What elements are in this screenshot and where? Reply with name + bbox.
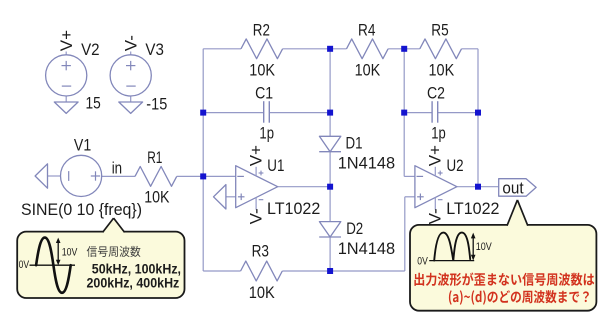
wire mid rail middle [329,152,331,222]
svg-text:V-: V- [426,208,445,224]
svg-text:V-: V- [246,208,265,224]
svg-text:LT1022: LT1022 [267,199,320,218]
wire left rail [202,49,204,271]
svg-text:V+: V+ [246,145,265,166]
wire V2 top stub [65,52,67,55]
svg-text:out: out [502,179,523,198]
wire C2 row right [438,112,478,114]
wire U2 output [457,186,478,188]
junction [200,173,206,179]
svg-text:V+: V+ [57,30,76,51]
svg-text:-15: -15 [146,94,167,113]
10V arrow [57,241,59,262]
wire mid rail lower [329,237,331,271]
svg-text:LT1022: LT1022 [446,199,499,218]
svg-text:V1: V1 [74,135,91,154]
ground under V2 [54,102,78,113]
svg-text:R4: R4 [358,21,375,40]
wire R1 to U1 minus [177,175,236,177]
svg-text:R1: R1 [147,148,162,167]
svg-text:0V: 0V [417,255,428,267]
wire C2 row left [404,112,432,114]
node out flag [499,179,536,197]
diode D1 1N4148 [319,136,340,151]
wire top rail R4-R5 [388,48,420,50]
op-amp U1 LT1022 [236,166,278,208]
resistor R1 10K [135,167,177,187]
svg-text:R5: R5 [431,21,448,40]
svg-text:D2: D2 [346,219,363,238]
svg-text:D1: D1 [346,133,363,152]
junction [327,184,333,190]
resistor R2 10K [241,39,283,59]
wire U2 minus input [404,175,415,177]
svg-text:1p: 1p [431,123,446,142]
svg-text:C2: C2 [427,84,445,103]
ground under V3 [119,102,143,113]
capacitor C1 1p [263,101,265,123]
resistor R3 10K [241,261,283,281]
annotation bubble left [17,232,184,298]
wire R3 row right [282,270,405,272]
svg-text:10V: 10V [62,246,78,258]
ground at U1 plus input [214,185,226,209]
wire V3 top stub [130,52,132,55]
svg-text:in: in [112,158,122,177]
svg-text:1N4148: 1N4148 [338,153,395,172]
rectified waveform sketch [429,260,474,262]
wire top rail R2-R4 [283,48,347,50]
svg-text:C1: C1 [255,84,273,103]
wire V2 gnd stub [65,96,67,102]
svg-text:0V: 0V [19,259,30,271]
svg-text:U2: U2 [447,156,464,175]
capacitor C2 1p [431,101,433,123]
svg-text:15: 15 [86,94,101,113]
wire U2 plus input [405,196,415,198]
svg-text:V-: V- [122,35,141,51]
wire right rail [477,49,479,187]
wire C1 row left [203,112,264,114]
svg-text:SINE(0 10 {freq}): SINE(0 10 {freq}) [21,200,142,219]
sine waveform sketch [30,264,76,266]
ground left of V1 [35,164,47,188]
wire top rail right segment [462,48,479,50]
question text line 1 [414,273,594,287]
svg-text:V3: V3 [145,40,164,59]
junction [327,46,333,52]
wire out [478,186,499,188]
10V arrow right [472,237,474,258]
diode D2 1N4148 [319,222,340,237]
svg-text:10K: 10K [249,60,275,79]
wire U2 plus rail [404,197,406,271]
question text line 2 [449,290,589,305]
svg-text:10K: 10K [355,60,381,79]
svg-text:10K: 10K [429,60,455,79]
svg-text:10K: 10K [249,283,276,302]
junction [475,110,481,116]
svg-text:1p: 1p [259,123,274,142]
annotation bubble right [410,225,596,311]
junction [327,268,333,274]
resistor R5 10K [420,39,462,59]
wire V1 to R1 [102,175,135,177]
junction [401,110,407,116]
wire top rail left segment [203,48,241,50]
wire U1 output [278,186,330,188]
wire U2 minus rail [403,49,405,177]
voltage source V2 [46,55,87,96]
svg-text:V2: V2 [81,40,100,59]
resistor R4 10K [347,39,389,59]
label shingou shuuhasuu [87,246,141,257]
svg-text:U1: U1 [267,156,284,175]
svg-text:R2: R2 [253,21,270,40]
svg-text:200kHz, 400kHz: 200kHz, 400kHz [87,276,180,291]
wire R3 row left [203,270,240,272]
svg-text:10V: 10V [476,241,493,253]
junction [200,110,206,116]
junction [327,110,333,116]
junction [475,184,481,190]
svg-text:R3: R3 [252,241,269,260]
wire gnd to U1 plus [226,196,236,198]
op-amp U2 LT1022 [415,166,457,208]
wire mid rail upper [329,49,331,137]
svg-text:10K: 10K [144,188,170,207]
svg-text:V+: V+ [426,145,445,166]
junction [401,46,407,52]
svg-text:1N4148: 1N4148 [338,239,395,258]
voltage source V1 [61,155,102,196]
wire C1 row right [269,112,330,114]
svg-text:50kHz, 100kHz,: 50kHz, 100kHz, [92,261,181,276]
wire gnd to V1 [48,175,61,177]
wire V3 gnd stub [130,96,132,102]
voltage source V3 [110,55,151,96]
